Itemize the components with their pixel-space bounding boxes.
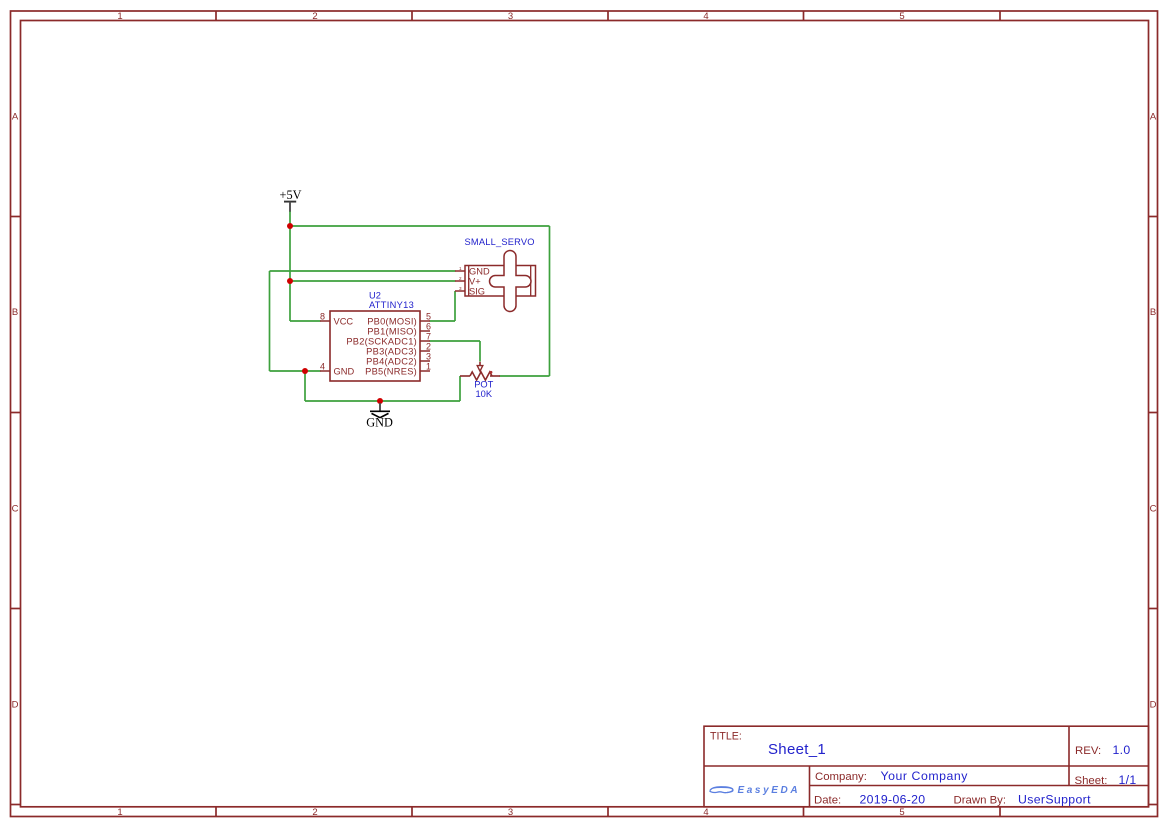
wire bottom rail up to POT left terminal	[459, 376, 461, 401]
svg-text:Sheet_1: Sheet_1	[768, 741, 826, 758]
wire down to POT wiper arrow	[479, 341, 481, 362]
svg-text:EasyEDA: EasyEDA	[738, 785, 801, 796]
wire junction B down to VCC row	[289, 281, 291, 321]
svg-text:4: 4	[703, 11, 708, 22]
svg-text:4: 4	[703, 807, 708, 818]
svg-text:+5V: +5V	[280, 188, 302, 202]
svg-text:Company:: Company:	[815, 771, 867, 783]
wire bottom ground rail	[305, 400, 460, 402]
svg-text:Sheet:: Sheet:	[1075, 775, 1108, 787]
svg-text:TITLE:: TITLE:	[710, 731, 742, 743]
pin 3 stub	[420, 360, 430, 362]
svg-text:3: 3	[508, 807, 513, 818]
pin 4 stub	[320, 370, 330, 372]
svg-text:8: 8	[320, 312, 325, 322]
POT wiper arrow	[479, 362, 481, 366]
servo pin 1 stub	[455, 270, 465, 272]
pin 5 stub	[420, 320, 430, 322]
connector SMALL_SERVO	[455, 237, 536, 312]
svg-text:4: 4	[320, 362, 325, 372]
svg-text:PB3(ADC3): PB3(ADC3)	[366, 346, 417, 356]
svg-text:B: B	[1150, 307, 1156, 318]
svg-text:U2: U2	[369, 291, 381, 301]
ground GND	[366, 403, 393, 429]
svg-text:1.0: 1.0	[1113, 743, 1131, 757]
svg-text:B: B	[12, 307, 18, 318]
svg-text:3: 3	[508, 11, 513, 22]
svg-text:5: 5	[899, 807, 904, 818]
svg-text:D: D	[12, 700, 19, 711]
pin 2 stub	[420, 350, 430, 352]
wire to U2 pin 8 VCC	[290, 320, 321, 322]
svg-text:5: 5	[899, 11, 904, 22]
POT left lead	[460, 375, 470, 377]
pin 8 stub	[320, 320, 330, 322]
svg-text:1: 1	[117, 11, 122, 22]
junction C	[302, 368, 308, 374]
servo pin 3 stub	[455, 290, 465, 292]
servo pin 2 stub	[455, 280, 465, 282]
svg-text:1: 1	[117, 807, 122, 818]
wire +5V rail to POT right terminal	[500, 375, 550, 377]
wire junction B to servo V+	[290, 280, 456, 282]
servo horn cross	[490, 251, 531, 312]
pin 6 stub	[420, 330, 430, 332]
wire top horizontal +5V rail	[290, 225, 550, 227]
EasyEDA logo	[710, 785, 801, 796]
wire servo SIG down	[454, 291, 456, 321]
svg-text:C: C	[1150, 504, 1157, 515]
svg-text:3: 3	[459, 286, 462, 291]
svg-text:REV:: REV:	[1075, 745, 1101, 757]
svg-text:GND: GND	[366, 415, 393, 429]
svg-text:7: 7	[426, 332, 431, 342]
svg-text:2: 2	[426, 342, 431, 352]
svg-text:10K: 10K	[476, 389, 493, 399]
svg-text:C: C	[12, 504, 19, 515]
svg-text:GND: GND	[469, 266, 490, 276]
svg-text:1: 1	[459, 266, 462, 271]
wire junction A down to junction B	[289, 226, 291, 281]
wire left vertical ground run	[269, 271, 271, 371]
svg-text:3: 3	[426, 352, 431, 362]
svg-text:6: 6	[426, 322, 431, 332]
svg-text:PB4(ADC2): PB4(ADC2)	[366, 356, 417, 366]
svg-text:VCC: VCC	[334, 316, 354, 326]
pin 7 stub	[420, 340, 430, 342]
POT pin 3 dot	[490, 371, 493, 374]
title block	[704, 726, 1149, 807]
POT right lead	[490, 375, 500, 377]
svg-text:2: 2	[459, 276, 462, 281]
svg-text:2: 2	[312, 807, 317, 818]
wire U2 pin 7 to POT wiper column	[430, 340, 481, 342]
wire SIG to U2 pin 5	[430, 320, 456, 322]
wire to U2 pin 4 GND	[270, 370, 321, 372]
svg-text:Your Company: Your Company	[881, 769, 969, 783]
servo body	[465, 266, 536, 297]
junction D	[377, 398, 383, 404]
svg-text:A: A	[12, 112, 19, 123]
svg-text:SIG: SIG	[469, 286, 485, 296]
svg-text:A: A	[1150, 112, 1157, 123]
junction A	[287, 223, 293, 229]
svg-text:1: 1	[426, 362, 431, 372]
svg-text:2019-06-20: 2019-06-20	[860, 792, 926, 806]
svg-text:5: 5	[426, 312, 431, 322]
svg-text:SMALL_SERVO: SMALL_SERVO	[465, 237, 535, 247]
ic U2 ATTINY13	[320, 291, 431, 382]
wire junction C down to bottom rail	[304, 371, 306, 401]
svg-text:UserSupport: UserSupport	[1018, 792, 1091, 806]
power +5V	[280, 188, 302, 212]
svg-text:V+: V+	[469, 276, 481, 286]
svg-text:2: 2	[312, 11, 317, 22]
svg-text:PB2(SCKADC1): PB2(SCKADC1)	[346, 336, 417, 346]
svg-text:1/1: 1/1	[1119, 773, 1137, 787]
wire right vertical +5V rail	[549, 226, 551, 376]
svg-text:GND: GND	[334, 366, 355, 376]
wire +5V stem to junction A	[289, 212, 291, 227]
svg-text:PB1(MISO): PB1(MISO)	[367, 326, 417, 336]
potentiometer POT 10K	[460, 362, 500, 399]
wire servo GND to left vertical	[270, 270, 456, 272]
svg-text:ATTINY13: ATTINY13	[369, 300, 414, 310]
POT zigzag body	[470, 372, 492, 380]
svg-text:PB5(NRES): PB5(NRES)	[365, 366, 417, 376]
svg-text:D: D	[1150, 700, 1157, 711]
svg-text:Drawn By:: Drawn By:	[954, 794, 1007, 806]
svg-text:PB0(MOSI): PB0(MOSI)	[367, 316, 417, 326]
junction B	[287, 278, 293, 284]
pin 1 stub	[420, 370, 430, 372]
svg-text:Date:: Date:	[814, 794, 841, 806]
